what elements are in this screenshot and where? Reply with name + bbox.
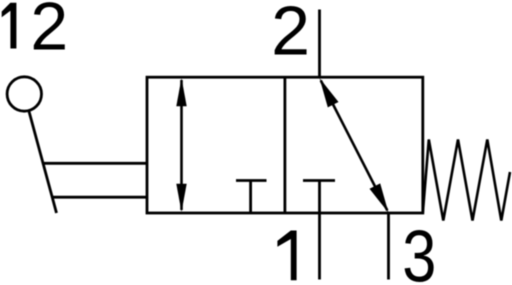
valve body outline <box>147 77 423 213</box>
right chamber flow path 2-3: diagonal double-headed arrow <box>320 78 389 213</box>
spring (return spring zigzag) <box>423 140 510 221</box>
lever rod bottom line <box>52 196 147 199</box>
wire port 2 pipe <box>318 10 321 79</box>
lever arm diagonal <box>29 111 57 213</box>
label 1 (bottom left port) <box>277 231 296 281</box>
label 12 (pilot/actuation port number) <box>2 3 17 49</box>
wire port 1 pipe <box>318 213 321 280</box>
label 3 (bottom right port) <box>402 217 436 285</box>
svg-text:2: 2 <box>30 0 68 65</box>
svg-text:3: 3 <box>402 217 436 285</box>
lever knob circle <box>7 77 41 111</box>
wire port 3 pipe <box>387 213 390 280</box>
chamber divider <box>283 77 286 213</box>
left chamber flow path: vertical double-headed arrow <box>176 78 186 212</box>
svg-text:2: 2 <box>271 0 310 69</box>
lever rod top line <box>43 162 147 165</box>
right chamber blocked port 1 (T symbol) <box>303 181 335 214</box>
left chamber blocked port (T symbol) <box>236 181 267 214</box>
